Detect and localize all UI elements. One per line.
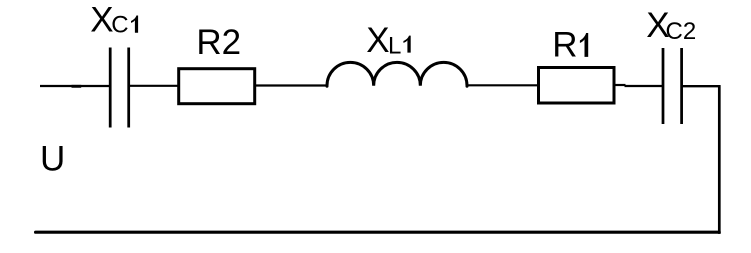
wire: C1 to R2 xyxy=(129,85,178,87)
wire: R2 to L1 xyxy=(255,84,328,86)
label X_C1 xyxy=(90,0,138,39)
resistor R1 xyxy=(539,68,615,104)
svg-text:R2: R2 xyxy=(196,23,241,62)
wire: right vertical xyxy=(718,85,721,234)
wire: left terminal to capacitor C1 xyxy=(40,85,109,88)
svg-text:L: L xyxy=(388,32,401,59)
label X_C2 xyxy=(646,6,696,45)
resistor R2 xyxy=(179,69,255,104)
svg-text:X: X xyxy=(90,0,113,39)
capacitor C2 xyxy=(663,48,682,124)
inductor L1 xyxy=(327,62,467,86)
capacitor C1 xyxy=(110,48,129,128)
wire: C2 to top-right corner xyxy=(682,85,720,87)
label U (source voltage) xyxy=(40,139,65,178)
wire: R1 to C2 xyxy=(614,85,662,86)
svg-text:C2: C2 xyxy=(666,18,697,45)
wire: L1 to R1 xyxy=(467,84,539,86)
svg-text:U: U xyxy=(40,139,65,178)
svg-text:C: C xyxy=(111,12,128,39)
label X_L1 xyxy=(366,21,410,60)
label R1 xyxy=(552,26,588,65)
label R2 xyxy=(196,23,241,62)
svg-text:R: R xyxy=(552,26,577,65)
svg-text:X: X xyxy=(366,21,389,60)
wire: bottom return xyxy=(36,231,720,234)
